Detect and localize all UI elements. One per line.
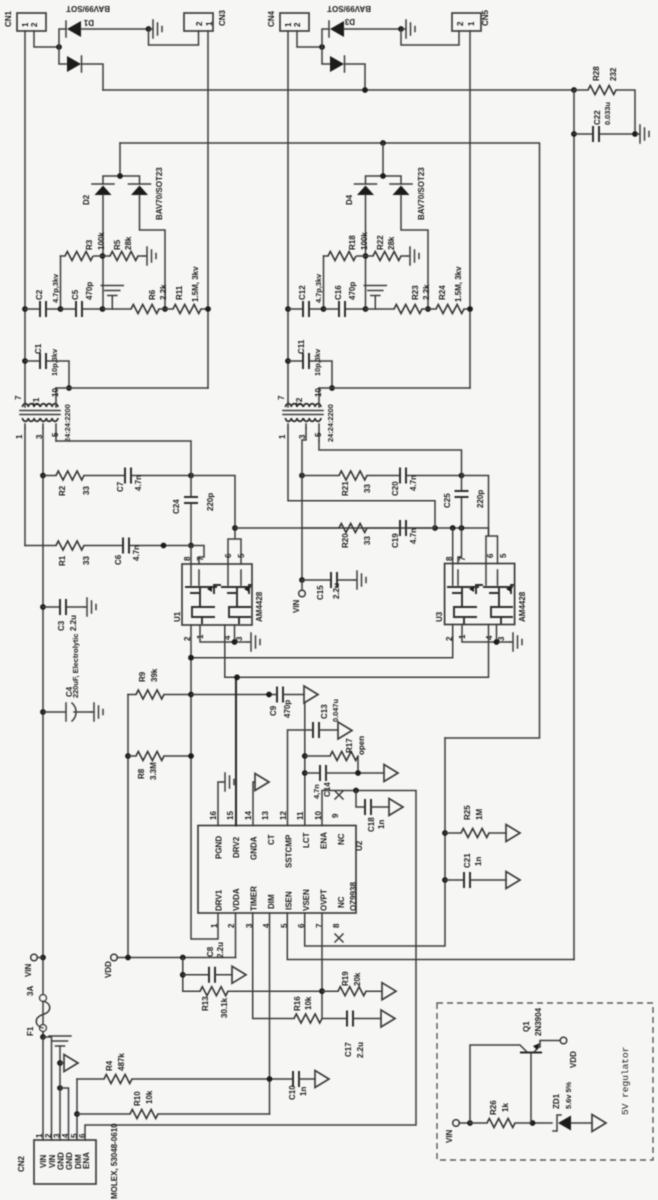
capacitor C15 2.2u	[302, 579, 354, 581]
svg-text:5: 5	[237, 553, 246, 558]
svg-text:14: 14	[244, 811, 253, 820]
resistor R16 10k	[294, 1014, 322, 1023]
svg-text:4.7n: 4.7n	[134, 475, 143, 491]
wire U3 pin1/3 ground row	[462, 625, 510, 643]
wire CN4 pin2 to D3 node	[297, 31, 322, 47]
svg-text:D1: D1	[83, 18, 94, 27]
node T1 pin5 drop joins R1 row	[161, 543, 167, 549]
svg-text:R17: R17	[345, 738, 354, 753]
svg-text:U1: U1	[173, 611, 182, 622]
svg-text:2.2u: 2.2u	[69, 615, 78, 631]
svg-text:1n: 1n	[299, 1087, 308, 1096]
node sense bus to R28	[571, 87, 577, 93]
svg-text:3A: 3A	[26, 986, 35, 996]
svg-text:R10: R10	[133, 1091, 142, 1106]
svg-text:7: 7	[196, 556, 205, 561]
node VINO junction	[299, 577, 305, 583]
node D1 common	[56, 44, 62, 50]
node C16/R23/D4	[363, 306, 369, 312]
svg-text:D2: D2	[82, 194, 91, 205]
capacitor C11 10p,3kv	[288, 361, 332, 388]
svg-text:24:24:2200: 24:24:2200	[326, 404, 335, 442]
svg-text:C2: C2	[35, 289, 44, 300]
wire D1 lower to sense line	[82, 64, 104, 90]
ground triangle at C18	[389, 799, 403, 816]
svg-text:5: 5	[499, 553, 508, 558]
svg-text:4.7n: 4.7n	[409, 528, 418, 544]
svg-text:5.6v 5%: 5.6v 5%	[564, 1081, 573, 1109]
svg-text:R2: R2	[58, 485, 67, 496]
wire U3 pin2 from DRV1 bus	[191, 625, 453, 658]
node R21 row on T2 rail	[299, 473, 305, 479]
svg-text:4.7n: 4.7n	[409, 475, 418, 491]
svg-text:Q1: Q1	[522, 1021, 531, 1032]
node R26/ZD1/base	[530, 1120, 536, 1126]
svg-text:CT: CT	[267, 834, 276, 845]
IC U2 OZ9938	[198, 811, 364, 928]
svg-text:10p,3kv: 10p,3kv	[313, 348, 322, 376]
terminal VDD	[111, 954, 117, 960]
svg-text:R19: R19	[341, 971, 350, 986]
svg-text:2N3904: 2N3904	[534, 1007, 543, 1036]
svg-text:16: 16	[209, 811, 218, 820]
node R2 row on rail	[40, 473, 46, 479]
svg-text:1k: 1k	[501, 1103, 510, 1112]
wire D1 node to CN3 pin2	[149, 29, 199, 45]
capacitor C18 1n	[356, 791, 365, 808]
svg-text:C9: C9	[269, 705, 278, 716]
svg-text:C11: C11	[297, 339, 306, 354]
node pin8 drop U3	[450, 525, 456, 531]
svg-text:C14: C14	[323, 782, 332, 797]
svg-text:10: 10	[314, 811, 323, 820]
svg-text:GNDA: GNDA	[250, 836, 259, 860]
svg-text:2: 2	[456, 21, 465, 26]
svg-text:R8: R8	[137, 768, 146, 779]
svg-text:BAV70/SOT23: BAV70/SOT23	[155, 167, 164, 220]
node C11 tap on lamp line	[285, 358, 291, 364]
node R9 right on DRV1 line	[188, 692, 194, 698]
capacitor C19 4.7n	[367, 527, 435, 529]
resistor R11 1.5M,3kv	[173, 305, 201, 314]
node R6/R11	[162, 306, 168, 312]
wire CN1 pin2 to D1 node	[34, 31, 59, 47]
svg-text:33: 33	[363, 536, 372, 545]
capacitor C10 1n	[293, 1071, 299, 1087]
capacitor C25 220p	[461, 476, 463, 529]
svg-text:1n: 1n	[474, 857, 483, 866]
ground at R22	[407, 247, 419, 265]
wire R28 bypass down	[573, 90, 575, 960]
svg-text:CN2: CN2	[17, 1155, 26, 1172]
wire D3 lower to sense bus	[345, 64, 366, 90]
svg-text:PGND: PGND	[215, 836, 224, 859]
terminal VIN	[31, 954, 37, 960]
node R24 right on CN5 line	[467, 306, 473, 312]
svg-text:C13: C13	[320, 704, 329, 719]
wire VDD branch rail	[127, 695, 129, 958]
resistor R25 1M	[445, 832, 461, 834]
wire ENA pin10 row	[85, 791, 416, 1141]
svg-text:7: 7	[14, 395, 23, 400]
resistor R5 28k	[110, 252, 138, 261]
svg-text:0.047u: 0.047u	[331, 699, 340, 722]
node C11 to T2 pin10 wire	[329, 385, 335, 391]
ground triangle at pin14	[255, 774, 269, 791]
svg-text:5: 5	[51, 432, 60, 437]
node C8 row	[180, 972, 186, 978]
node DRV1 bus at U1 line	[188, 655, 194, 661]
svg-text:4.7p,3kv: 4.7p,3kv	[51, 273, 60, 303]
svg-text:C6: C6	[114, 554, 123, 565]
node C3 on rail	[40, 604, 46, 610]
node C4 on rail	[40, 709, 46, 715]
wire T1 pin10 row	[56, 387, 208, 389]
svg-text:1: 1	[15, 434, 24, 439]
svg-text:6: 6	[224, 553, 233, 558]
connector CN2 MOLEX	[34, 1133, 96, 1184]
svg-text:D4: D4	[345, 194, 354, 205]
wire DIM pin4	[269, 913, 271, 1114]
svg-text:3.3M: 3.3M	[149, 762, 158, 780]
NC mark pin9	[335, 791, 343, 799]
svg-text:VSEN: VSEN	[302, 889, 311, 911]
node VIN tie CN2 pins 1/2	[40, 1034, 46, 1040]
svg-text:GND: GND	[65, 1152, 74, 1170]
node C12/C16/R18	[321, 306, 327, 312]
svg-text:39k: 39k	[150, 668, 159, 682]
node U1 ground row	[232, 639, 238, 645]
svg-text:VDDA: VDDA	[232, 888, 241, 911]
svg-text:C25: C25	[443, 493, 452, 508]
svg-text:LCT: LCT	[302, 832, 311, 848]
svg-text:6: 6	[78, 1133, 87, 1138]
wire current sense bus y=90	[103, 89, 574, 91]
svg-text:SSTCMP: SSTCMP	[285, 834, 294, 868]
svg-text:R23: R23	[411, 285, 420, 300]
svg-text:7: 7	[277, 395, 286, 400]
svg-text:9: 9	[331, 813, 340, 818]
capacitor C5 470p	[61, 308, 103, 310]
ground triangle at C9	[304, 686, 318, 703]
svg-text:10k: 10k	[145, 1090, 154, 1104]
svg-text:BAV99/SOT: BAV99/SOT	[66, 4, 110, 13]
ground at U1	[248, 633, 260, 651]
ground at R5	[144, 247, 156, 265]
wire row from U1 to U3	[235, 528, 498, 564]
svg-text:C10: C10	[288, 1085, 297, 1100]
wire CN4 pin1 down to T2 pin7	[287, 31, 289, 402]
wire row to U1 pins 6/5 drop	[191, 476, 235, 529]
wire R13 branch down	[182, 958, 184, 992]
wire OVPT pin7	[321, 913, 323, 1019]
wire U1 pin2 DRV1 line down	[191, 625, 218, 939]
svg-text:MOLEX, 53048-0610: MOLEX, 53048-0610	[110, 1123, 119, 1199]
diode D3 lower	[322, 47, 330, 64]
svg-text:CN1: CN1	[4, 10, 13, 27]
node C7/C24	[188, 473, 194, 479]
node C22 right / ground	[632, 131, 638, 137]
svg-text:ZD1: ZD1	[552, 1093, 561, 1109]
wire CN1 pin1 down to T1 pin7	[24, 31, 26, 402]
svg-text:C5: C5	[71, 289, 80, 300]
node C12 tap on lamp line	[285, 306, 291, 312]
svg-text:DRV2: DRV2	[232, 836, 241, 858]
node C18 tap	[353, 788, 359, 794]
svg-text:2: 2	[195, 21, 204, 26]
svg-text:NC: NC	[337, 833, 346, 845]
connector CN1	[17, 13, 46, 31]
wire VSEN pin6	[305, 738, 445, 946]
svg-text:CN4: CN4	[267, 10, 276, 27]
wire DRV2 pin15 up to bus	[235, 677, 237, 825]
svg-text:220uF, Electrolytic: 220uF, Electrolytic	[71, 634, 80, 699]
svg-text:5: 5	[314, 432, 323, 437]
svg-text:R5: R5	[113, 239, 122, 250]
node VDD rail join	[125, 955, 131, 961]
svg-text:100k: 100k	[360, 232, 369, 250]
node R8 right on DRV1 line	[188, 753, 194, 759]
svg-text:24:24:2200: 24:24:2200	[63, 404, 72, 442]
svg-text:R6: R6	[148, 289, 157, 300]
node sense bus join	[362, 87, 368, 93]
node C14/R17	[355, 770, 361, 776]
svg-text:6: 6	[486, 553, 495, 558]
svg-text:8: 8	[445, 556, 454, 561]
svg-text:220p: 220p	[206, 493, 215, 511]
wire GNDA pin14	[253, 782, 255, 826]
svg-text:R1: R1	[58, 555, 67, 566]
ground at U3	[510, 633, 522, 651]
capacitor C7 4.7n	[84, 475, 191, 477]
svg-text:0.033u: 0.033u	[603, 102, 612, 125]
svg-text:1: 1	[278, 434, 287, 439]
node D4 tap on feedback bus	[380, 140, 386, 146]
diode D1 lower	[59, 47, 67, 64]
wire VDDA pin2	[235, 913, 237, 958]
svg-text:10: 10	[314, 388, 323, 397]
wire row to U3 pins 6/5	[462, 476, 489, 537]
svg-text:470p: 470p	[348, 282, 357, 300]
ground bars above GND rail	[49, 1036, 71, 1046]
node R11 right on CN3 line	[205, 306, 211, 312]
capacitor C2 4.7p,3kv	[25, 308, 61, 310]
node C24 to pins 8/7	[188, 543, 194, 549]
resistor R26 1k	[470, 1122, 487, 1124]
ground at C4	[91, 703, 103, 721]
svg-text:R11: R11	[175, 285, 184, 300]
capacitor C14 4.7n	[305, 772, 320, 774]
node R13 branch	[180, 955, 186, 961]
diode pair D4 (BAV70/SOT23)	[366, 143, 402, 184]
op-amp U3 AM4428	[435, 553, 527, 641]
svg-text:C12: C12	[298, 285, 307, 300]
node R3/R5/D2	[100, 253, 106, 259]
svg-text:DIM: DIM	[267, 894, 276, 909]
svg-text:1: 1	[205, 21, 214, 26]
svg-text:1.5M, 3kv: 1.5M, 3kv	[454, 266, 463, 302]
svg-text:C24: C24	[172, 499, 181, 514]
svg-text:T1: T1	[32, 397, 41, 407]
svg-text:VIN: VIN	[24, 963, 33, 977]
svg-text:C15: C15	[316, 585, 325, 600]
svg-text:R25: R25	[463, 805, 472, 820]
svg-text:28k: 28k	[387, 236, 396, 250]
zener ZD1 5.6v 5%	[553, 1115, 561, 1131]
connector CN5	[452, 13, 481, 31]
svg-text:2: 2	[30, 22, 39, 27]
wire CN2 DIM lead	[76, 1079, 78, 1140]
resistor R9 39k	[128, 694, 136, 696]
ground at D3	[403, 20, 415, 38]
ground at D1	[150, 20, 162, 38]
ground triangle at C8	[232, 966, 246, 983]
svg-text:2.2u: 2.2u	[216, 942, 225, 958]
wire D2 right anode jog down	[140, 195, 166, 309]
svg-text:U3: U3	[435, 611, 444, 622]
node drain row junction	[232, 525, 238, 531]
svg-text:VDD: VDD	[104, 961, 113, 978]
transistor Q1 2N3904	[470, 1045, 527, 1123]
ground above C16/R23 junction	[364, 286, 386, 310]
svg-text:open: open	[357, 736, 366, 755]
svg-text:F1: F1	[26, 1026, 35, 1036]
svg-text:OVPT: OVPT	[320, 889, 329, 911]
svg-text:AM4428: AM4428	[518, 591, 527, 622]
resistor R18 100k	[324, 255, 329, 257]
connector CN3	[184, 13, 213, 31]
svg-text:4.7p,3kv: 4.7p,3kv	[314, 273, 323, 303]
svg-text:VIN: VIN	[445, 1129, 454, 1143]
wire pin8 stub	[190, 546, 192, 565]
node C25 line on row	[459, 525, 465, 531]
node Q1 collector branch	[467, 1120, 473, 1126]
wire PGND pin16	[218, 782, 222, 826]
svg-text:C17: C17	[344, 1042, 353, 1057]
svg-text:CN5: CN5	[481, 9, 490, 26]
wire R3 left leg down to C2/C5 row	[60, 256, 62, 309]
wire TIMER pin3	[253, 913, 294, 1019]
svg-text:8: 8	[332, 923, 341, 928]
svg-text:R9: R9	[138, 671, 147, 682]
node C2 tap on lamp line	[22, 306, 28, 312]
svg-text:C19: C19	[391, 533, 400, 548]
wire R18 left leg down	[323, 256, 325, 309]
resistor R22 28k	[373, 252, 401, 261]
svg-text:VDD: VDD	[569, 1051, 578, 1068]
wire VIN center-tap rail from T1 pin3 down	[42, 428, 44, 1037]
svg-text:100k: 100k	[97, 232, 106, 250]
node C20/C25	[459, 473, 465, 479]
resistor R24 1.5M,3kv	[436, 305, 464, 314]
svg-text:12: 12	[279, 811, 288, 820]
svg-text:10p,3kv: 10p,3kv	[50, 348, 59, 376]
node C2/C5/R3	[58, 306, 64, 312]
capacitor C9 470p	[277, 687, 283, 703]
ground at C22	[637, 125, 649, 143]
capacitor C1 10p,3kv	[25, 361, 69, 388]
svg-text:BAV70/SOT23: BAV70/SOT23	[417, 167, 426, 220]
svg-text:5V regulator: 5V regulator	[620, 1047, 631, 1115]
svg-text:2.2u: 2.2u	[332, 583, 341, 599]
svg-text:33: 33	[363, 484, 372, 493]
ground triangle at R25	[506, 825, 520, 842]
node D3 cathode junction	[398, 26, 404, 32]
fuse F1 3A	[42, 1031, 44, 1037]
capacitor C4 220uF electrolytic	[43, 703, 66, 721]
wire CN3 pin1 down	[207, 31, 209, 388]
svg-text:TIMER: TIMER	[250, 886, 259, 911]
node R8 left on VDD rail	[125, 753, 131, 759]
node C5/R6/D2	[100, 306, 106, 312]
wire SSTCMP pin12 to C13	[288, 730, 314, 826]
resistor R2 33	[43, 475, 56, 477]
svg-text:ISEN: ISEN	[285, 891, 294, 910]
node C1 tap on lamp line	[22, 358, 28, 364]
wire D4 right anode jog down	[401, 195, 428, 309]
svg-text:232: 232	[609, 67, 618, 81]
svg-text:1: 1	[21, 22, 30, 27]
svg-text:1.5M, 3kv: 1.5M, 3kv	[191, 266, 200, 302]
resistor R1 33	[25, 545, 56, 547]
ground triangle at CN2 GND	[60, 1062, 64, 1064]
svg-text:R21: R21	[341, 481, 350, 496]
resistor R6 2.2k	[103, 308, 132, 310]
svg-text:10k: 10k	[304, 996, 313, 1010]
node GND triangle tap	[57, 1060, 63, 1066]
svg-text:NC: NC	[337, 896, 346, 908]
svg-text:R18: R18	[348, 235, 357, 250]
resistor R21 33	[302, 475, 339, 477]
resistor R10 10k	[77, 1113, 130, 1115]
wire U1 pin4 to DRV2 node	[225, 625, 237, 677]
wire U1 pin1/3 ground row	[200, 625, 248, 642]
svg-text:2.2k: 2.2k	[159, 284, 168, 300]
wire T2 pin1 jog	[288, 428, 435, 528]
svg-text:ENA: ENA	[320, 832, 329, 849]
svg-text:OZ9938: OZ9938	[349, 882, 358, 911]
svg-text:1: 1	[467, 21, 476, 26]
wire CN2 pin2 jog	[43, 1037, 52, 1140]
terminal VIN (5V reg)	[453, 1120, 459, 1126]
node D1 cathode junction	[146, 26, 152, 32]
svg-text:470p: 470p	[283, 700, 292, 718]
svg-text:CN3: CN3	[218, 9, 227, 26]
wire D3 node to CN5 pin2	[401, 29, 459, 45]
transformer T1	[14, 388, 72, 442]
capacitor C12 4.7p,3kv	[288, 308, 324, 310]
svg-text:ENA: ENA	[82, 1152, 91, 1169]
svg-text:C22: C22	[593, 110, 602, 125]
resistor R3 100k	[61, 255, 66, 257]
svg-text:R28: R28	[592, 66, 601, 81]
resistor R20 33	[302, 527, 339, 529]
resistor R28 232	[588, 86, 616, 95]
svg-text:2: 2	[293, 22, 302, 27]
svg-text:7: 7	[458, 556, 467, 561]
capacitor C3 2.2u	[43, 606, 84, 608]
svg-text:C8: C8	[206, 946, 215, 957]
node C21	[442, 877, 448, 883]
op-amp U1 AM4428	[173, 553, 264, 641]
wire C9 row	[191, 694, 277, 696]
resistor R23 2.2k	[366, 308, 395, 310]
ground triangle at C21	[506, 872, 520, 889]
resistor R17 open	[305, 755, 330, 757]
svg-text:2.2k: 2.2k	[422, 284, 431, 300]
svg-text:1M: 1M	[475, 809, 484, 820]
diode D3 upper (BAV99)	[322, 29, 329, 47]
